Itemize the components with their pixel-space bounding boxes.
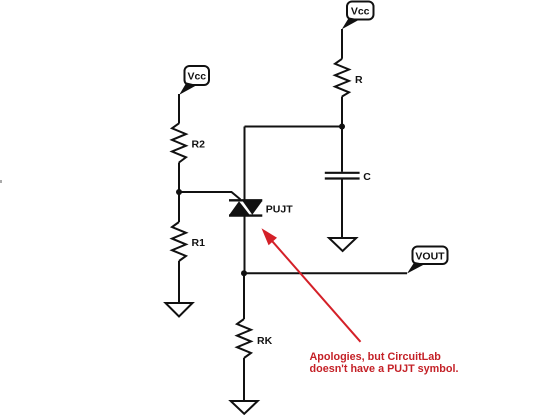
wire R2 to node A bbox=[178, 163, 180, 193]
wire node A to PUJT gate bbox=[179, 192, 241, 200]
svg-text:C: C bbox=[363, 171, 371, 183]
svg-text:R: R bbox=[355, 74, 363, 86]
wire node C to RK bbox=[243, 273, 245, 319]
wire R1 to ground bbox=[178, 261, 180, 303]
wire node B to PUJT anode (horizontal) bbox=[245, 126, 343, 128]
svg-text:Vcc: Vcc bbox=[351, 5, 370, 17]
annotation text (red) bbox=[310, 351, 459, 375]
wire capacitor to ground bbox=[341, 180, 343, 239]
svg-text:VOUT: VOUT bbox=[415, 250, 445, 262]
wire node A to R1 bbox=[178, 192, 180, 222]
wire RK to ground bbox=[243, 358, 245, 401]
annotation arrow (red) bbox=[262, 228, 361, 341]
ground (under C) bbox=[329, 238, 356, 251]
node C junction dot bbox=[241, 270, 247, 276]
wire node B to capacitor C bbox=[341, 127, 343, 172]
ground (left) bbox=[166, 303, 193, 317]
stray mark at left edge bbox=[0, 180, 2, 183]
wire node C to VOUT bbox=[244, 272, 407, 274]
resistor R2 bbox=[172, 123, 186, 162]
net flag VOUT bbox=[407, 247, 448, 274]
wire Vcc-top to R bbox=[341, 29, 343, 59]
resistor R1 bbox=[172, 222, 186, 261]
svg-text:RK: RK bbox=[257, 335, 273, 347]
node B junction dot bbox=[339, 124, 345, 130]
svg-text:doesn't have a PUJT symbol.: doesn't have a PUJT symbol. bbox=[310, 363, 459, 375]
svg-text:R1: R1 bbox=[192, 237, 206, 249]
wire PUJT anode vertical bbox=[244, 127, 246, 201]
ground (bottom) bbox=[231, 401, 258, 414]
wire PUJT cathode to node C bbox=[244, 216, 246, 274]
PUJT symbol (triac-style) bbox=[229, 200, 262, 215]
svg-text:Apologies, but CircuitLab: Apologies, but CircuitLab bbox=[310, 351, 442, 363]
wire R to node B bbox=[341, 97, 343, 127]
svg-text:R2: R2 bbox=[192, 139, 206, 151]
svg-text:PUJT: PUJT bbox=[266, 203, 293, 215]
capacitor C bbox=[325, 173, 360, 179]
net flag Vcc (left) bbox=[179, 66, 209, 95]
net flag Vcc (top) bbox=[342, 2, 374, 30]
resistor RK bbox=[237, 319, 251, 358]
resistor R bbox=[335, 59, 349, 97]
wire Vcc-left to R2 bbox=[178, 94, 180, 124]
svg-text:Vcc: Vcc bbox=[187, 71, 206, 83]
node A junction dot bbox=[176, 189, 182, 195]
